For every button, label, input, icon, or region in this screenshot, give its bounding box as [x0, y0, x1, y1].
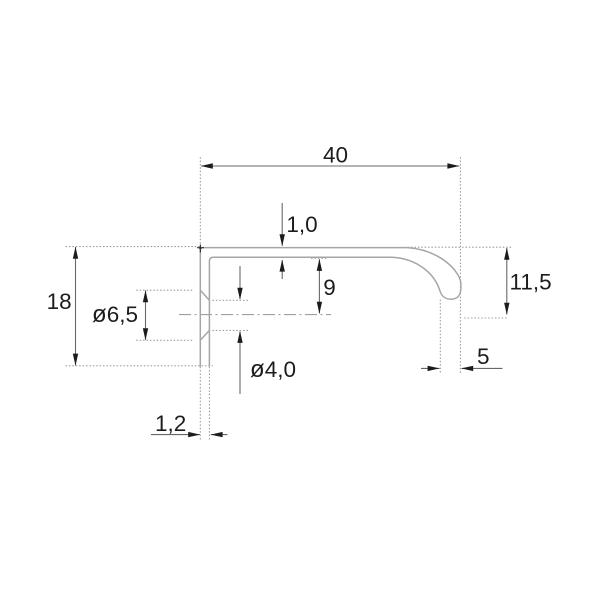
svg-text:ø6,5: ø6,5: [92, 301, 138, 328]
svg-text:11,5: 11,5: [510, 270, 552, 295]
svg-text:1,2: 1,2: [155, 411, 186, 436]
svg-text:18: 18: [47, 289, 72, 314]
svg-text:9: 9: [323, 275, 336, 300]
svg-text:1,0: 1,0: [286, 212, 317, 237]
svg-text:5: 5: [477, 344, 490, 369]
svg-text:ø4,0: ø4,0: [250, 356, 296, 383]
svg-text:40: 40: [323, 142, 348, 167]
